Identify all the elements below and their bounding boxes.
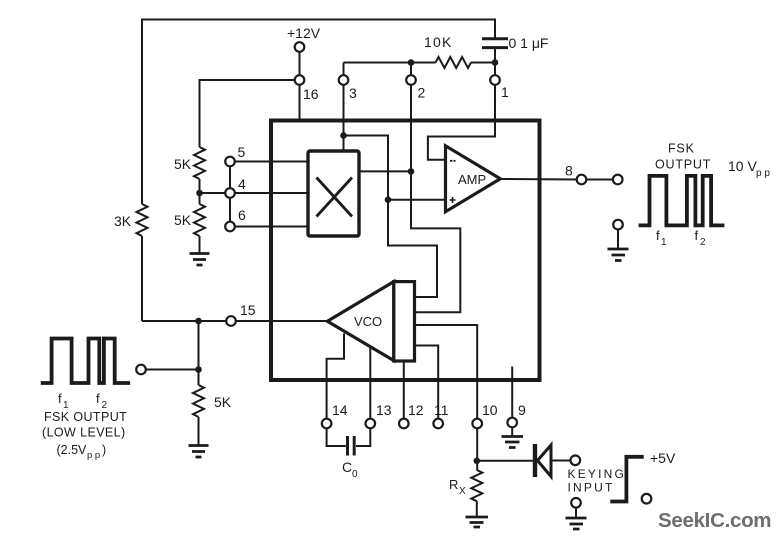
svg-text:(2.5V: (2.5V [57,443,88,457]
svg-text:5: 5 [238,144,246,160]
node: divider mid junction [196,190,203,197]
wire: pin13 from VCO slope [369,348,371,419]
svg-text:2: 2 [700,237,706,248]
ground (output) [608,249,629,261]
pin 3 [339,75,357,101]
pin 1 [490,75,509,100]
svg-text:2: 2 [418,85,426,101]
svg-text:0: 0 [352,469,358,480]
wire: pin2 drop, multiplier output, route to VCO block [359,63,460,313]
node: junction pin3 branch [340,132,347,139]
svg-text:p p: p p [87,450,100,461]
wire: between divider resistors [199,179,201,204]
wire: pin14 from VCO slope [327,334,344,419]
svg-text:3: 3 [349,85,357,101]
wire: pin10 to Rx/diode node [476,428,478,470]
wire: pin12 from VCO block bottom [403,361,405,419]
svg-text:10: 10 [482,402,498,418]
svg-text:f: f [695,228,699,243]
svg-text:R: R [449,477,458,492]
svg-text:10 V: 10 V [728,158,757,174]
pin 4 [225,176,246,198]
svg-text:14: 14 [332,402,348,418]
pin 16 [295,75,319,102]
svg-text:FSK OUTPUT: FSK OUTPUT [44,410,127,424]
pin 14 [322,402,348,428]
svg-text:5K: 5K [174,156,192,172]
node: junction feedback/pin15 [195,318,202,325]
svg-text:8: 8 [565,163,573,179]
capacitor C1 0.1uF [482,35,548,63]
resistor R3 5K (upper divider) [174,147,205,179]
node: junction multiplier output/pin2 [408,168,415,175]
svg-text:9: 9 [518,402,526,418]
wire: 5K to ground [198,417,200,445]
wire: Rx to ground [476,501,478,516]
IC U1 outline (16-pin PLL) [271,121,540,381]
svg-text:f: f [656,228,660,243]
svg-text:15: 15 [240,302,256,318]
pin 13 [366,402,392,428]
terminal: keying input [568,456,627,495]
wire: top feedback wire from VCO-input node to C1, with left vertical drop [142,20,495,322]
keying step symbol +5V [610,450,676,502]
svg-text:+12V: +12V [287,25,321,41]
pin 10 [472,402,497,428]
pin 8 [565,163,586,185]
node: junction pin2 bus [408,59,415,66]
wire: node to diode [477,460,533,462]
pin 15 [226,302,256,326]
wire: pin3/pin2/pin1 top bus at y=62.5 [344,62,496,64]
wire: pin11 from VCO block right [415,346,439,419]
wire: pin1 drop to AMP - input [428,63,495,160]
wire: input terminal to bias node [146,321,199,385]
svg-text:4: 4 [238,176,246,192]
wire: pin10 from VCO block right [415,325,478,419]
svg-text:INPUT: INPUT [568,481,615,495]
terminal: keying ground [571,498,581,518]
waveform: FSK output low level [41,339,130,462]
terminal: FSK low-level input [136,365,146,375]
svg-text:VCO: VCO [354,314,382,329]
node: junction input/5K [195,366,202,373]
pin 6 [225,207,246,231]
pin 5 [225,144,245,166]
ground (divider) [190,254,210,266]
wire: diode to keying terminal [553,460,571,462]
multiplier block U1a (phase detector X) [308,151,359,236]
svg-text:13: 13 [376,402,392,418]
svg-text:f: f [58,391,62,406]
svg-text:C: C [342,459,352,475]
pin 12 [399,402,424,428]
power +12V terminal [287,25,321,121]
node: junction AMP + branch [385,196,392,203]
svg-text:1: 1 [501,84,509,100]
node: junction pin1/C1 [492,59,499,66]
svg-text:AMP: AMP [458,172,486,187]
ground (Rx) [466,517,489,527]
resistor Rx [449,470,482,501]
svg-text:+5V: +5V [650,450,676,466]
wire: pin15/VCO input line [142,320,327,322]
ground (keying) [566,518,587,529]
terminal: keying low-level [642,494,652,504]
svg-text:5K: 5K [214,394,232,410]
VCO block U1c [327,282,414,361]
svg-text:1: 1 [661,237,667,248]
svg-text:FSK: FSK [668,142,695,156]
svg-text:OUTPUT: OUTPUT [655,158,711,172]
wire: pin5/4/6 ladder [200,162,309,227]
svg-text:(LOW LEVEL): (LOW LEVEL) [42,426,126,440]
svg-text:KEYING: KEYING [568,467,627,481]
svg-text:): ) [102,443,106,457]
resistor R5 5K (input bias) [193,385,232,417]
svg-text:10K: 10K [424,34,453,50]
svg-text:5K: 5K [174,212,192,228]
wire: pin9 stub [511,367,513,418]
resistor R2 10K [424,34,471,68]
terminal: output ground [613,220,623,249]
op-amp U1b AMP [446,146,501,212]
resistor R1 3K (in feedback drop) [114,204,148,236]
diode D1 (keying) [535,444,551,477]
svg-text:f: f [96,391,100,406]
svg-text:6: 6 [238,207,246,223]
svg-text:p p: p p [756,168,770,179]
pin 11 [433,402,448,428]
capacitor C0 (VCO timing) [327,429,371,481]
pin 2 [406,75,425,100]
wire: divider to ground [199,236,201,253]
ground (input bias) [189,446,209,458]
svg-text:3K: 3K [114,213,132,229]
node: junction Rx/diode [474,458,481,465]
waveform: FSK output 10Vpp [639,142,771,249]
svg-text:X: X [459,486,466,497]
wire: pin3 drop into multiplier, branch to AMP + and VCO [344,63,446,298]
wire: pin16 to 5K divider top [200,80,300,147]
pin 9 [507,402,526,427]
svg-text:SeekIC.com: SeekIC.com [658,509,771,532]
svg-text:0 1 μF: 0 1 μF [509,35,549,51]
svg-text:11: 11 [434,402,449,418]
resistor R4 5K (lower divider) [174,204,205,236]
ground (pin 9) [502,427,524,447]
svg-text:12: 12 [408,402,424,418]
svg-text:16: 16 [303,86,319,102]
terminal: FSK output [613,175,623,185]
wire: AMP output to pin 8 [500,178,613,181]
